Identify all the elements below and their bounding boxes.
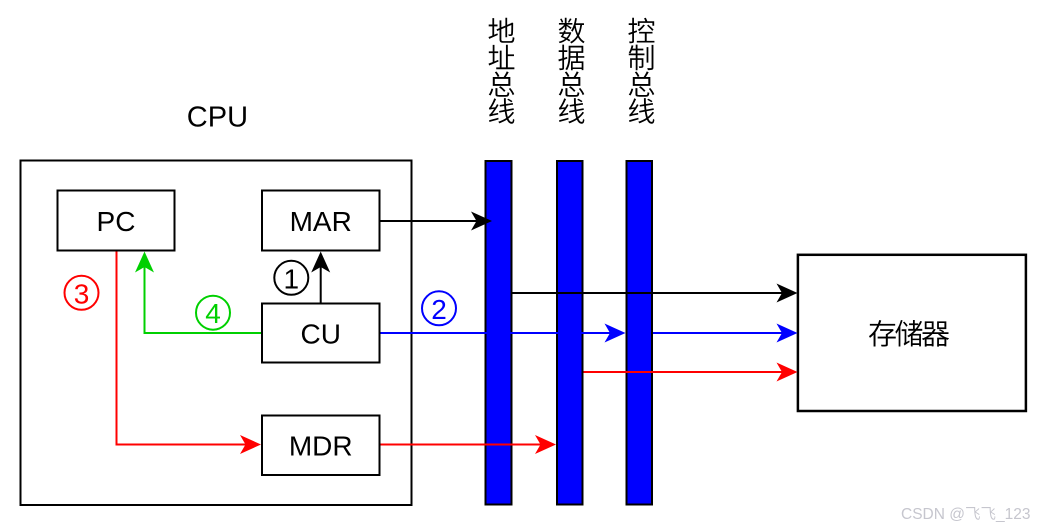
wire CU to MAR (black arrow up)	[320, 266, 322, 303]
wire MAR to address bus (black arrow)	[381, 220, 479, 222]
step circle 3	[65, 276, 99, 310]
address bus bar	[486, 161, 512, 505]
svg-text:CSDN @: CSDN @	[901, 506, 965, 523]
register MAR	[262, 191, 380, 251]
wire CU to control bus (blue arrow)	[381, 332, 612, 334]
wire address bus to memory (black arrow)	[513, 292, 784, 294]
svg-text:1: 1	[284, 263, 300, 294]
wire data bus to memory (red arrow)	[584, 371, 784, 373]
svg-text:PC: PC	[97, 206, 136, 237]
CPU box	[21, 161, 412, 506]
label data bus (vertical)	[558, 18, 584, 124]
control bus bar	[627, 161, 653, 505]
register PC	[58, 191, 175, 251]
step circle 1	[274, 261, 308, 295]
wire control bus to memory (blue arrow)	[653, 332, 784, 334]
label control bus (vertical)	[628, 18, 654, 124]
svg-text:CPU: CPU	[187, 102, 248, 134]
svg-text:2: 2	[431, 294, 447, 325]
svg-text:3: 3	[74, 278, 90, 309]
data bus bar	[557, 161, 583, 505]
svg-text:4: 4	[205, 298, 221, 329]
svg-text:MDR: MDR	[289, 431, 353, 462]
register MDR	[262, 416, 380, 476]
svg-text:MAR: MAR	[290, 206, 352, 237]
wire PC to MDR (red arrow)	[117, 252, 248, 445]
watermark CSDN	[901, 506, 1030, 523]
step circle 4	[196, 296, 230, 330]
wire MDR to data bus (red arrow)	[381, 444, 543, 446]
svg-text:CU: CU	[300, 319, 340, 350]
control unit CU	[262, 304, 380, 363]
label address bus (vertical)	[488, 18, 514, 124]
memory box 存储器	[798, 255, 1026, 411]
step circle 2	[422, 291, 456, 325]
svg-text:_123: _123	[995, 506, 1030, 523]
wire CU to PC (green arrow)	[145, 267, 262, 334]
